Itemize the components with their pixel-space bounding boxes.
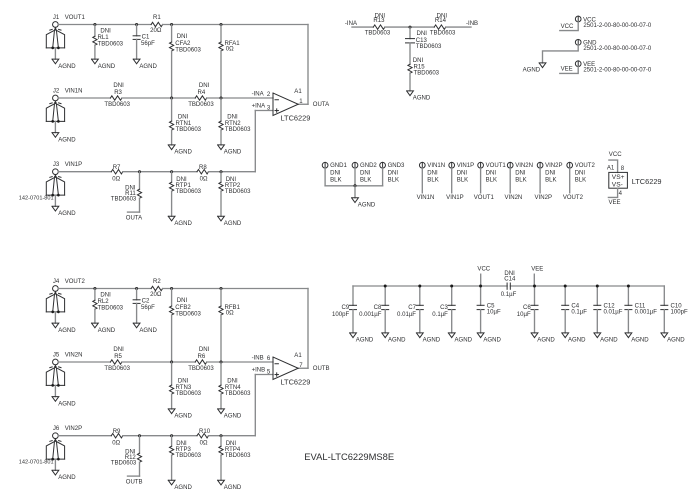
svg-text:VCC: VCC (561, 24, 574, 30)
svg-text:VIN2P: VIN2P (65, 426, 82, 432)
svg-text:R6: R6 (198, 354, 206, 360)
svg-text:RL1: RL1 (98, 35, 110, 41)
svg-text:BLK: BLK (457, 177, 468, 183)
svg-text:BLK: BLK (486, 177, 497, 183)
svg-text:GND2: GND2 (360, 163, 377, 169)
svg-text:142-0701-801: 142-0701-801 (19, 196, 54, 202)
svg-text:0.001µF: 0.001µF (359, 312, 382, 318)
svg-text:DNI: DNI (575, 170, 586, 176)
svg-text:R5: R5 (114, 354, 122, 360)
svg-text:DNI: DNI (427, 170, 438, 176)
svg-text:DNI: DNI (457, 170, 468, 176)
svg-text:DNI: DNI (227, 379, 238, 385)
svg-text:J6: J6 (53, 426, 60, 432)
svg-text:R15: R15 (414, 64, 426, 70)
svg-text:C8: C8 (374, 305, 382, 311)
svg-text:AGND: AGND (58, 137, 76, 143)
svg-text:C2: C2 (142, 299, 150, 305)
svg-text:A1: A1 (294, 89, 302, 95)
svg-text:DNI: DNI (178, 379, 189, 385)
svg-text:TBD0603: TBD0603 (175, 48, 201, 54)
svg-text:0.001µF: 0.001µF (635, 309, 658, 315)
svg-text:VIN1N: VIN1N (417, 195, 435, 201)
svg-text:DNI: DNI (113, 347, 124, 353)
svg-text:R2: R2 (153, 279, 161, 285)
svg-text:BLK: BLK (360, 177, 371, 183)
svg-text:GND1: GND1 (330, 163, 347, 169)
svg-text:BLK: BLK (330, 177, 341, 183)
svg-text:VOUT2: VOUT2 (65, 279, 86, 285)
svg-text:AGND: AGND (568, 338, 586, 344)
svg-text:142-0701-801: 142-0701-801 (19, 460, 54, 466)
svg-text:R7: R7 (113, 165, 121, 171)
svg-text:2501-2-00-80-00-00-07-0: 2501-2-00-80-00-00-07-0 (583, 23, 652, 29)
svg-text:DNI: DNI (227, 115, 238, 121)
svg-text:R3: R3 (114, 90, 122, 96)
svg-text:DNI: DNI (417, 31, 428, 37)
svg-text:AGND: AGND (423, 338, 441, 344)
svg-text:4: 4 (619, 191, 623, 197)
svg-text:DNI: DNI (330, 170, 341, 176)
svg-text:TBD0603: TBD0603 (414, 71, 440, 77)
svg-text:6: 6 (267, 356, 271, 362)
svg-text:0.01µF: 0.01µF (397, 312, 416, 318)
svg-text:J5: J5 (53, 352, 60, 358)
svg-text:TBD0603: TBD0603 (111, 461, 137, 467)
svg-text:0.01µF: 0.01µF (604, 309, 623, 315)
svg-text:20Ω: 20Ω (150, 292, 162, 298)
svg-text:TBD0603: TBD0603 (176, 391, 202, 397)
svg-text:+INB: +INB (252, 368, 266, 374)
svg-text:VOUT2: VOUT2 (575, 163, 596, 169)
svg-text:R13: R13 (373, 18, 385, 24)
svg-text:DNI: DNI (177, 34, 188, 40)
svg-text:TBD0603: TBD0603 (365, 30, 391, 36)
svg-text:VIN1P: VIN1P (457, 163, 474, 169)
svg-text:-INA: -INA (345, 21, 358, 27)
svg-text:AGND: AGND (356, 338, 374, 344)
svg-text:C3: C3 (440, 305, 448, 311)
svg-text:VIN2P: VIN2P (535, 195, 552, 201)
svg-text:TBD0603: TBD0603 (176, 453, 202, 459)
svg-text:0Ω: 0Ω (112, 177, 120, 183)
svg-text:TBD0603: TBD0603 (111, 197, 137, 203)
svg-text:2501-2-00-80-00-00-07-0: 2501-2-00-80-00-00-07-0 (583, 46, 652, 52)
svg-text:LTC6229: LTC6229 (281, 378, 311, 387)
svg-text:TBD0603: TBD0603 (98, 42, 124, 48)
svg-text:DNI: DNI (226, 441, 237, 447)
svg-text:BLK: BLK (575, 177, 586, 183)
svg-text:DNI: DNI (388, 170, 399, 176)
svg-text:J2: J2 (53, 88, 60, 94)
svg-text:DNI: DNI (176, 441, 187, 447)
svg-text:OUTB: OUTB (126, 480, 143, 486)
svg-text:VS-: VS- (612, 181, 623, 188)
svg-text:BLK: BLK (427, 177, 438, 183)
svg-text:TBD0603: TBD0603 (176, 189, 202, 195)
svg-text:TBD0603: TBD0603 (416, 44, 442, 50)
svg-text:-INB: -INB (252, 356, 264, 362)
svg-text:DNI: DNI (100, 293, 111, 299)
svg-text:TBD0603: TBD0603 (176, 127, 202, 133)
svg-text:DNI: DNI (360, 170, 371, 176)
svg-text:VEE: VEE (561, 67, 573, 73)
svg-text:OUTB: OUTB (313, 366, 330, 372)
svg-text:DNI: DNI (199, 347, 210, 353)
svg-text:VIN2P: VIN2P (545, 163, 562, 169)
svg-text:OUTA: OUTA (126, 216, 143, 222)
svg-text:VIN2N: VIN2N (515, 163, 533, 169)
svg-text:AGND: AGND (413, 96, 431, 102)
svg-text:AGND: AGND (139, 328, 157, 334)
svg-text:2: 2 (267, 92, 271, 98)
svg-text:TBD0603: TBD0603 (225, 189, 251, 195)
svg-text:DNI: DNI (100, 29, 111, 35)
svg-text:AGND: AGND (483, 338, 501, 344)
svg-text:A1: A1 (294, 353, 302, 359)
svg-text:0Ω: 0Ω (200, 177, 208, 183)
svg-text:AGND: AGND (358, 203, 376, 209)
svg-text:AGND: AGND (600, 338, 618, 344)
svg-text:DNI: DNI (199, 83, 210, 89)
svg-text:BLK: BLK (545, 177, 556, 183)
svg-text:TBD0603: TBD0603 (98, 306, 124, 312)
svg-text:VIN2N: VIN2N (65, 352, 83, 358)
svg-text:C14: C14 (504, 276, 516, 282)
svg-text:TBD0603: TBD0603 (104, 102, 130, 108)
svg-text:VOUT2: VOUT2 (563, 195, 584, 201)
svg-text:VCC: VCC (609, 152, 622, 158)
svg-text:VOUT1: VOUT1 (65, 15, 86, 21)
svg-text:-INA: -INA (252, 92, 265, 98)
svg-text:VOUT1: VOUT1 (474, 195, 495, 201)
svg-text:C1: C1 (142, 35, 150, 41)
svg-text:EVAL-LTC6229MS8E: EVAL-LTC6229MS8E (304, 451, 394, 462)
svg-text:100pF: 100pF (332, 312, 349, 318)
svg-text:R14: R14 (435, 18, 447, 24)
svg-text:GND3: GND3 (388, 163, 405, 169)
svg-text:VOUT1: VOUT1 (486, 163, 507, 169)
svg-text:TBD0603: TBD0603 (104, 366, 130, 372)
svg-text:CFB2: CFB2 (175, 305, 191, 311)
svg-text:R10: R10 (199, 429, 211, 435)
svg-text:VEE: VEE (608, 200, 620, 206)
svg-text:10µF: 10µF (487, 309, 501, 315)
svg-text:VIN1N: VIN1N (65, 88, 83, 94)
svg-text:AGND: AGND (174, 150, 192, 156)
svg-text:DNI: DNI (178, 115, 189, 121)
svg-text:100pF: 100pF (671, 309, 688, 315)
svg-text:BLK: BLK (515, 177, 526, 183)
svg-text:56pF: 56pF (141, 305, 155, 311)
svg-text:AGND: AGND (388, 338, 406, 344)
svg-text:0Ω: 0Ω (112, 441, 120, 447)
svg-text:0Ω: 0Ω (200, 441, 208, 447)
svg-text:R1: R1 (153, 15, 161, 21)
svg-text:VIN1P: VIN1P (446, 195, 463, 201)
svg-text:0Ω: 0Ω (226, 311, 234, 317)
svg-text:AGND: AGND (174, 221, 192, 227)
svg-text:R9: R9 (113, 429, 121, 435)
svg-text:0.1µF: 0.1µF (501, 292, 517, 298)
svg-text:DNI: DNI (413, 58, 424, 64)
svg-text:C9: C9 (341, 305, 349, 311)
svg-text:C6: C6 (523, 305, 531, 311)
svg-text:-INB: -INB (466, 21, 478, 27)
svg-text:8: 8 (621, 166, 625, 172)
svg-text:0.1µF: 0.1µF (432, 312, 448, 318)
svg-text:VIN1P: VIN1P (65, 162, 82, 168)
svg-text:AGND: AGND (58, 328, 76, 334)
svg-text:VS+: VS+ (612, 174, 625, 181)
svg-text:AGND: AGND (224, 414, 242, 420)
svg-text:10µF: 10µF (517, 312, 531, 318)
svg-text:TBD0603: TBD0603 (188, 366, 214, 372)
svg-text:TBD0603: TBD0603 (175, 312, 201, 318)
svg-text:AGND: AGND (174, 485, 192, 491)
svg-text:AGND: AGND (58, 211, 76, 217)
svg-text:TBD0603: TBD0603 (430, 30, 456, 36)
svg-text:+INA: +INA (252, 104, 267, 110)
svg-text:DNI: DNI (226, 177, 237, 183)
svg-text:DNI: DNI (515, 170, 526, 176)
svg-text:56pF: 56pF (141, 41, 155, 47)
svg-text:AGND: AGND (667, 338, 685, 344)
svg-text:VCC: VCC (477, 267, 490, 273)
svg-text:AGND: AGND (224, 221, 242, 227)
svg-text:AGND: AGND (455, 338, 473, 344)
svg-text:VEE: VEE (531, 267, 543, 273)
svg-text:AGND: AGND (631, 338, 649, 344)
svg-text:R4: R4 (198, 90, 206, 96)
svg-text:LTC6229: LTC6229 (632, 177, 662, 186)
svg-text:TBD0603: TBD0603 (225, 453, 251, 459)
svg-text:AGND: AGND (58, 401, 76, 407)
svg-text:VIN2N: VIN2N (504, 195, 522, 201)
svg-text:LTC6229: LTC6229 (281, 114, 311, 123)
svg-text:2501-2-00-80-00-00-07-0: 2501-2-00-80-00-00-07-0 (583, 68, 652, 74)
svg-text:DNI: DNI (177, 298, 188, 304)
svg-text:TBD0603: TBD0603 (225, 127, 251, 133)
svg-text:0.1µF: 0.1µF (571, 309, 587, 315)
svg-text:RL2: RL2 (98, 299, 110, 305)
svg-text:AGND: AGND (98, 328, 116, 334)
svg-text:DNI: DNI (113, 83, 124, 89)
svg-text:R8: R8 (199, 165, 207, 171)
svg-text:J3: J3 (53, 162, 60, 168)
svg-text:TBD0603: TBD0603 (225, 391, 251, 397)
svg-text:J4: J4 (53, 279, 60, 285)
svg-text:A1: A1 (607, 166, 615, 172)
svg-text:OUTA: OUTA (313, 102, 330, 108)
svg-text:AGND: AGND (58, 475, 76, 481)
svg-text:TBD0603: TBD0603 (188, 102, 214, 108)
svg-text:AGND: AGND (58, 64, 76, 70)
svg-text:DNI: DNI (486, 170, 497, 176)
svg-text:AGND: AGND (224, 150, 242, 156)
svg-text:BLK: BLK (388, 177, 399, 183)
svg-text:AGND: AGND (523, 67, 541, 73)
svg-text:AGND: AGND (537, 338, 555, 344)
svg-text:AGND: AGND (98, 64, 116, 70)
svg-text:CFA2: CFA2 (175, 41, 191, 47)
svg-text:DNI: DNI (176, 177, 187, 183)
svg-text:C7: C7 (408, 305, 416, 311)
svg-text:VIN1N: VIN1N (427, 163, 445, 169)
svg-text:J1: J1 (53, 15, 60, 21)
svg-text:20Ω: 20Ω (150, 28, 162, 34)
svg-text:0Ω: 0Ω (226, 47, 234, 53)
svg-text:AGND: AGND (139, 64, 157, 70)
svg-text:DNI: DNI (545, 170, 556, 176)
svg-text:AGND: AGND (224, 485, 242, 491)
svg-text:AGND: AGND (174, 414, 192, 420)
